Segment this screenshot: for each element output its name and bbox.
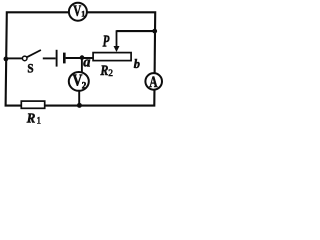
svg-text:a: a xyxy=(83,55,91,71)
svg-text:2: 2 xyxy=(82,80,87,90)
svg-text:S: S xyxy=(27,61,33,76)
svg-text:R: R xyxy=(100,63,109,79)
svg-text:1: 1 xyxy=(37,116,42,126)
svg-text:b: b xyxy=(134,56,141,71)
svg-text:R: R xyxy=(26,111,36,126)
svg-text:1: 1 xyxy=(81,10,85,19)
svg-text:P: P xyxy=(102,32,110,51)
svg-text:A: A xyxy=(149,74,158,91)
svg-text:2: 2 xyxy=(108,69,113,79)
